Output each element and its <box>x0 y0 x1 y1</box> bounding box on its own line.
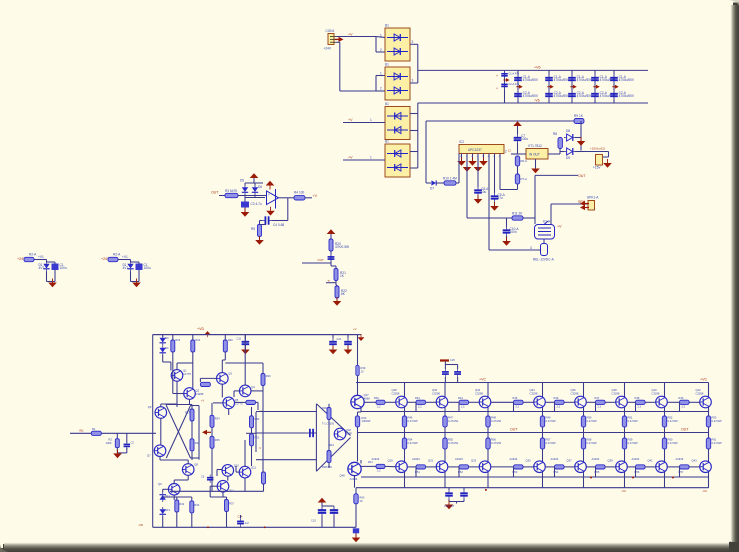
svg-text:C1775: C1775 <box>183 372 191 376</box>
svg-text:+V: +V <box>557 225 562 229</box>
svg-text:+V6: +V6 <box>534 65 541 69</box>
svg-text:C26 C27: C26 C27 <box>444 504 455 508</box>
svg-text:R45: R45 <box>513 396 518 400</box>
svg-text:+V: +V <box>348 156 353 160</box>
svg-text:R49: R49 <box>679 396 684 400</box>
svg-text:R59: R59 <box>628 438 633 442</box>
svg-text:2.2: 2.2 <box>377 405 381 409</box>
svg-text:C3298: C3298 <box>475 392 483 396</box>
svg-text:R27: R27 <box>185 411 190 415</box>
svg-text:R46: R46 <box>408 416 413 420</box>
svg-text:R60: R60 <box>360 496 365 500</box>
svg-text:R40: R40 <box>374 396 379 400</box>
svg-text:R23: R23 <box>175 338 180 342</box>
svg-text:R39: R39 <box>361 366 366 370</box>
svg-text:3: 3 <box>412 79 414 83</box>
svg-text:R49: R49 <box>546 416 551 420</box>
svg-text:T-1 C5200: T-1 C5200 <box>322 422 335 426</box>
svg-text:+: + <box>268 193 270 197</box>
svg-text:0.47/2W: 0.47/2W <box>408 419 418 423</box>
svg-text:100u: 100u <box>521 137 528 141</box>
svg-text:4700u/50V: 4700u/50V <box>577 94 593 98</box>
svg-text:R55: R55 <box>448 438 453 442</box>
svg-text:D8: D8 <box>566 129 570 133</box>
svg-text:0.47/2W: 0.47/2W <box>491 419 501 423</box>
svg-text:2.2: 2.2 <box>638 404 642 408</box>
svg-text:C11: C11 <box>237 337 242 341</box>
svg-text:A1943: A1943 <box>372 457 380 461</box>
svg-text:R60: R60 <box>668 438 673 442</box>
svg-text:2.2: 2.2 <box>557 404 561 408</box>
svg-text:R4 100: R4 100 <box>294 191 305 195</box>
svg-text:100u: 100u <box>144 266 151 270</box>
svg-text:D6: D6 <box>258 185 262 189</box>
svg-text:A1943: A1943 <box>632 457 640 461</box>
svg-text:R6-A: R6-A <box>521 159 528 163</box>
svg-text:Q41: Q41 <box>648 459 654 463</box>
svg-text:+15V: +15V <box>593 166 601 170</box>
svg-text:R26: R26 <box>228 338 233 342</box>
svg-text:-VC: -VC <box>702 489 708 493</box>
svg-text:2.2: 2.2 <box>682 404 686 408</box>
svg-text:C4 0.68: C4 0.68 <box>273 223 284 227</box>
svg-text:2: 2 <box>380 48 382 52</box>
svg-text:B1: B1 <box>385 140 389 144</box>
svg-text:Q35: Q35 <box>526 459 532 463</box>
svg-text:+V1: +V1 <box>122 255 128 259</box>
svg-text:2.2: 2.2 <box>377 469 381 473</box>
svg-text:OUT: OUT <box>510 428 518 432</box>
svg-text:R5: R5 <box>251 227 255 231</box>
svg-text:-VC: -VC <box>621 489 627 493</box>
svg-text:+: + <box>496 74 498 78</box>
svg-text:C15: C15 <box>311 519 316 523</box>
svg-text:D3: D3 <box>165 336 169 340</box>
svg-text:R9 1K: R9 1K <box>574 114 584 118</box>
svg-text:R46: R46 <box>554 396 559 400</box>
svg-text:0.47/2W: 0.47/2W <box>491 441 501 445</box>
svg-text:R44: R44 <box>458 396 463 400</box>
svg-text:A1943: A1943 <box>350 477 358 481</box>
svg-text:R36: R36 <box>322 406 327 410</box>
svg-text:669F: 669F <box>346 431 352 435</box>
svg-text:-V: -V <box>259 447 262 450</box>
svg-text:4700u/50V: 4700u/50V <box>523 94 539 98</box>
svg-text:-VD: -VD <box>138 523 144 527</box>
svg-text:100/2W: 100/2W <box>362 419 371 423</box>
svg-text:+VD: +VD <box>197 327 204 331</box>
svg-text:Q12: Q12 <box>251 466 257 470</box>
svg-text:R30: R30 <box>254 417 259 421</box>
svg-text:0.47/2W: 0.47/2W <box>668 441 678 445</box>
svg-text:0.47/2W: 0.47/2W <box>448 419 458 423</box>
svg-text:Q29: Q29 <box>388 459 394 463</box>
svg-text:Q42: Q42 <box>696 388 702 392</box>
svg-text:R35: R35 <box>215 438 220 442</box>
svg-text:R31: R31 <box>254 436 259 440</box>
svg-text:R28: R28 <box>195 441 200 445</box>
svg-text:B1: B1 <box>385 102 389 106</box>
svg-text:R48: R48 <box>635 396 640 400</box>
svg-text:D4: D4 <box>165 346 169 350</box>
svg-text:A1943: A1943 <box>676 457 684 461</box>
svg-text:2.2: 2.2 <box>598 404 602 408</box>
svg-text:Q10: Q10 <box>234 464 240 468</box>
svg-text:A1943: A1943 <box>412 457 420 461</box>
svg-text:10u: 10u <box>481 190 487 194</box>
svg-text:0.47/2W: 0.47/2W <box>668 419 678 423</box>
svg-text:R2: R2 <box>109 438 113 442</box>
svg-text:-V6: -V6 <box>534 99 540 103</box>
svg-text:OUT: OUT <box>681 428 689 432</box>
svg-text:R24: R24 <box>195 338 200 342</box>
svg-text:A1943: A1943 <box>551 457 559 461</box>
svg-text:Q46: Q46 <box>346 428 351 432</box>
svg-text:Q36: Q36 <box>571 388 577 392</box>
svg-text:SPK1-A: SPK1-A <box>587 196 599 200</box>
svg-text:Q9: Q9 <box>158 482 162 486</box>
svg-text:C5: C5 <box>201 475 205 479</box>
svg-text:R47: R47 <box>448 416 453 420</box>
svg-text:2.2: 2.2 <box>418 404 422 408</box>
svg-text:100K: 100K <box>106 441 112 445</box>
svg-text:R3 647K: R3 647K <box>225 189 238 193</box>
svg-text:IN OUT: IN OUT <box>529 153 540 157</box>
svg-text:C3298: C3298 <box>392 392 400 396</box>
svg-text:4700u/50V: 4700u/50V <box>577 78 593 82</box>
svg-text:R8: R8 <box>553 132 557 136</box>
svg-text:A968: A968 <box>364 396 371 400</box>
svg-text:R51: R51 <box>628 416 633 420</box>
svg-text:100u: 100u <box>60 266 67 270</box>
svg-text:D9: D9 <box>566 156 570 160</box>
svg-text:C3298: C3298 <box>696 392 704 396</box>
svg-text:+V1: +V1 <box>38 255 44 259</box>
svg-text:47K/0.5W: 47K/0.5W <box>335 245 349 249</box>
svg-text:C3298: C3298 <box>432 392 440 396</box>
svg-text:R34: R34 <box>215 417 220 421</box>
svg-text:R37: R37 <box>229 502 234 506</box>
svg-text:Q40: Q40 <box>652 388 658 392</box>
svg-text:Q32: Q32 <box>475 388 481 392</box>
svg-text:SPK: SPK <box>578 200 586 204</box>
svg-text:C21: C21 <box>337 337 342 341</box>
svg-text:0.47/2W: 0.47/2W <box>712 419 722 423</box>
svg-text:+VC: +VC <box>479 378 486 382</box>
svg-text:C3 4.7u: C3 4.7u <box>251 202 262 206</box>
svg-text:100n: 100n <box>510 230 517 234</box>
svg-text:4700u/50V: 4700u/50V <box>523 78 539 82</box>
svg-text:Q8: Q8 <box>194 463 198 467</box>
svg-text:VT1 7812: VT1 7812 <box>528 144 542 148</box>
svg-text:3: 3 <box>530 246 532 250</box>
svg-text:Q11: Q11 <box>229 489 234 493</box>
svg-text:D5: D5 <box>240 179 244 183</box>
svg-text:R53: R53 <box>712 416 717 420</box>
svg-text:4700u/50V: 4700u/50V <box>619 78 635 82</box>
svg-text:R54: R54 <box>408 438 413 442</box>
svg-text:1: 1 <box>380 72 382 76</box>
svg-text:C3298: C3298 <box>571 392 579 396</box>
svg-text:2.2: 2.2 <box>461 404 465 408</box>
svg-text:R2-A: R2-A <box>113 253 121 257</box>
svg-text:0.47/2W: 0.47/2W <box>408 441 418 445</box>
svg-text:+VC: +VC <box>700 378 707 382</box>
svg-text:47u: 47u <box>498 196 504 200</box>
svg-text:Q47: Q47 <box>364 393 370 397</box>
svg-text:Q7: Q7 <box>147 454 151 458</box>
svg-text:0.47/2W: 0.47/2W <box>546 419 556 423</box>
svg-text:IC2: IC2 <box>459 140 464 144</box>
svg-text:Q31: Q31 <box>428 459 434 463</box>
svg-text:1943: 1943 <box>328 443 334 447</box>
svg-text:+V: +V <box>353 327 357 331</box>
svg-text:1: 1 <box>380 34 382 38</box>
svg-text:2.2: 2.2 <box>516 404 520 408</box>
svg-text:C3298: C3298 <box>530 392 538 396</box>
svg-text:OUT: OUT <box>211 191 219 195</box>
svg-text:C2: C2 <box>131 441 135 445</box>
svg-text:Q6: Q6 <box>148 405 152 409</box>
svg-text:R11 2K: R11 2K <box>512 212 523 216</box>
svg-text:0.47/2W: 0.47/2W <box>587 419 597 423</box>
svg-text:Q5: Q5 <box>235 398 239 402</box>
svg-text:1: 1 <box>370 118 372 122</box>
svg-text:4V7: 4V7 <box>123 266 129 270</box>
svg-text:D7: D7 <box>430 187 434 191</box>
svg-text:0.47/2W: 0.47/2W <box>628 419 638 423</box>
svg-text:R2-A: R2-A <box>29 253 37 257</box>
svg-text:C3298: C3298 <box>652 392 660 396</box>
svg-text:A1943: A1943 <box>510 457 518 461</box>
svg-text:2: 2 <box>505 150 507 154</box>
svg-text:Q4: Q4 <box>251 385 255 389</box>
svg-text:R56: R56 <box>491 438 496 442</box>
svg-text:R47: R47 <box>595 396 600 400</box>
svg-text:R52: R52 <box>668 416 673 420</box>
svg-text:OUT: OUT <box>578 174 586 178</box>
svg-text:R7-A: R7-A <box>521 177 528 181</box>
svg-text:Q43: Q43 <box>692 459 698 463</box>
svg-text:+15V(or12): +15V(or12) <box>590 147 605 151</box>
svg-text:4700u/50V: 4700u/50V <box>554 94 570 98</box>
svg-text:R50: R50 <box>587 416 592 420</box>
svg-text:+V: +V <box>348 118 353 122</box>
svg-text:R61: R61 <box>712 438 717 442</box>
svg-text:R57: R57 <box>546 438 551 442</box>
svg-text:R48: R48 <box>491 416 496 420</box>
svg-text:OUT: OUT <box>318 258 325 262</box>
svg-text:Q48: Q48 <box>340 474 346 478</box>
svg-text:C3298: C3298 <box>196 392 204 396</box>
svg-text:R43: R43 <box>415 396 420 400</box>
svg-text:+V: +V <box>313 194 318 198</box>
svg-text:Q28: Q28 <box>392 388 398 392</box>
svg-text:Q1: Q1 <box>183 369 187 373</box>
svg-text:Q38: Q38 <box>612 388 618 392</box>
svg-text:+: + <box>496 87 498 91</box>
svg-text:Q39: Q39 <box>608 459 614 463</box>
svg-text:REL-12VDC-A: REL-12VDC-A <box>533 258 555 262</box>
svg-text:4700u/50V: 4700u/50V <box>554 78 570 82</box>
svg-text:R10 1.4M: R10 1.4M <box>443 177 457 181</box>
svg-text:3: 3 <box>412 40 414 44</box>
svg-text:Q30: Q30 <box>432 388 438 392</box>
svg-text:A1943: A1943 <box>592 457 600 461</box>
svg-text:R1: R1 <box>92 427 96 431</box>
svg-text:2: 2 <box>380 87 382 91</box>
svg-text:C25: C25 <box>450 358 455 362</box>
svg-text:K1-A: K1-A <box>543 220 551 224</box>
svg-text:B1: B1 <box>385 63 389 67</box>
svg-text:Q3: Q3 <box>228 372 232 376</box>
svg-text:B1: B1 <box>385 24 389 28</box>
svg-text:0.47/2W: 0.47/2W <box>448 441 458 445</box>
svg-text:D13: D13 <box>165 508 170 512</box>
svg-text:R29: R29 <box>266 374 271 378</box>
svg-text:R38 680: R38 680 <box>322 465 332 469</box>
svg-text:+V: +V <box>348 33 353 37</box>
svg-text:0.47/2W: 0.47/2W <box>712 441 722 445</box>
svg-text:Q33: Q33 <box>471 459 477 463</box>
svg-text:4700u/50V: 4700u/50V <box>619 94 635 98</box>
svg-text:4V7: 4V7 <box>39 266 45 270</box>
svg-text:1: 1 <box>370 156 372 160</box>
svg-text:+24V: +24V <box>324 47 332 51</box>
svg-text:CON1: CON1 <box>326 29 335 33</box>
svg-text:0.47/2W: 0.47/2W <box>587 441 597 445</box>
svg-text:A1943: A1943 <box>455 457 463 461</box>
svg-text:R32: R32 <box>179 502 184 506</box>
svg-text:Q37: Q37 <box>567 459 573 463</box>
svg-text:Q34: Q34 <box>530 388 536 392</box>
svg-text:IN1: IN1 <box>79 429 84 433</box>
svg-text:R33: R33 <box>194 503 199 507</box>
svg-text:+V: +V <box>201 399 204 402</box>
svg-text:R58: R58 <box>587 438 592 442</box>
svg-text:C3298: C3298 <box>612 392 620 396</box>
svg-text:4u7: 4u7 <box>245 521 250 525</box>
svg-text:0.47/2W: 0.47/2W <box>628 441 638 445</box>
svg-text:Q2: Q2 <box>196 389 200 393</box>
svg-text:0.47/2W: 0.47/2W <box>546 441 556 445</box>
